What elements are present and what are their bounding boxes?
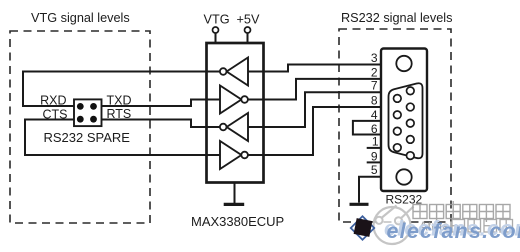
svg-text:TXD: TXD [107,94,132,108]
DB9 connector J1 shell [381,49,427,192]
RS232 signal levels dashed box [339,29,451,222]
watermark blue wordmark [384,217,520,244]
svg-text:RTS: RTS [107,107,132,121]
VTG supply pin circle and stub [213,27,219,43]
svg-text:5: 5 [371,163,378,177]
jumper block JP1 (RS232 spare 2x2 header) [74,99,102,126]
svg-text:1: 1 [372,134,379,148]
wire loopback DB9 pin 4 to pin 6 [353,121,381,135]
svg-text:RS232 SPARE: RS232 SPARE [44,130,131,145]
svg-text:3: 3 [371,51,378,65]
watermark gray text row 2 [419,219,513,234]
DB9 pin holes column 1-5 [407,87,415,159]
ground (DB9 pin 5) [350,203,369,206]
DB9 bottom mounting hole [396,169,411,184]
wire stub DB9 pin 1 [367,147,381,149]
DB9 pin holes column 6-9 [394,95,402,152]
ground (IC) [224,183,245,205]
svg-text:MAX3380ECUP: MAX3380ECUP [191,214,284,229]
VTG signal levels dashed box [10,31,150,223]
wire row2 to DB9 pin 2 [248,79,381,100]
wire RTS: jumper to receiver 3 output [102,120,220,128]
wire row1 to DB9 pin 3 [248,65,381,72]
svg-text:RS232 signal levels: RS232 signal levels [341,11,452,25]
wire RXD: jumper to net up to receiver 1 input row [23,72,220,107]
receiver buffer 1 (left-pointing inverter, RXD) [220,58,248,86]
wire TXD: jumper to driver 2 input [102,100,221,107]
svg-text:RXD: RXD [40,94,66,108]
svg-text:2: 2 [371,65,378,79]
svg-text:4: 4 [371,108,378,122]
watermark diamond logo [350,215,376,241]
svg-text:VTG signal levels: VTG signal levels [31,11,130,25]
driver buffer 4 (right-pointing inverter, CTS side) [220,141,248,169]
svg-text:8: 8 [371,94,378,108]
DB9 top mounting hole [396,56,411,71]
watermark logo circle [374,206,414,245]
wire row4 to DB9 pin 8 [248,107,381,155]
wire stub DB9 pin 9 [367,161,381,163]
receiver buffer 3 (left-pointing inverter, RTS side) [220,113,248,141]
wire row3 to DB9 pin 7 [248,92,381,127]
+5V supply pin circle and stub [245,27,251,43]
IC U1 MAX3380ECUP package box [207,43,264,183]
svg-text:VTG: VTG [204,13,230,27]
svg-text:elecfans.com: elecfans.com [387,219,520,243]
svg-text:+5V: +5V [237,13,260,27]
svg-text:9: 9 [371,149,378,163]
watermark gray chinese text row 1 [413,201,510,222]
wire CTS: jumper to net down to driver 4 row [25,120,220,156]
driver buffer 2 (right-pointing inverter, TXD) [220,86,248,114]
svg-text:CTS: CTS [43,108,68,122]
DB9 D-sub insert face [389,83,423,158]
svg-text:7: 7 [371,79,378,93]
wire DB9 pin 5 to ground [359,177,381,203]
